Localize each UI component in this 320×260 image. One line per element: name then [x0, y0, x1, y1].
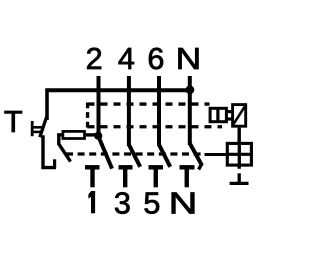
svg-text:2: 2	[86, 42, 103, 76]
svg-text:6: 6	[147, 42, 164, 76]
svg-text:T: T	[4, 104, 23, 139]
svg-text:N: N	[169, 186, 198, 220]
svg-text:3: 3	[114, 186, 131, 220]
svg-text:N: N	[176, 42, 202, 76]
svg-text:5: 5	[143, 186, 160, 220]
svg-text:4: 4	[118, 42, 135, 76]
